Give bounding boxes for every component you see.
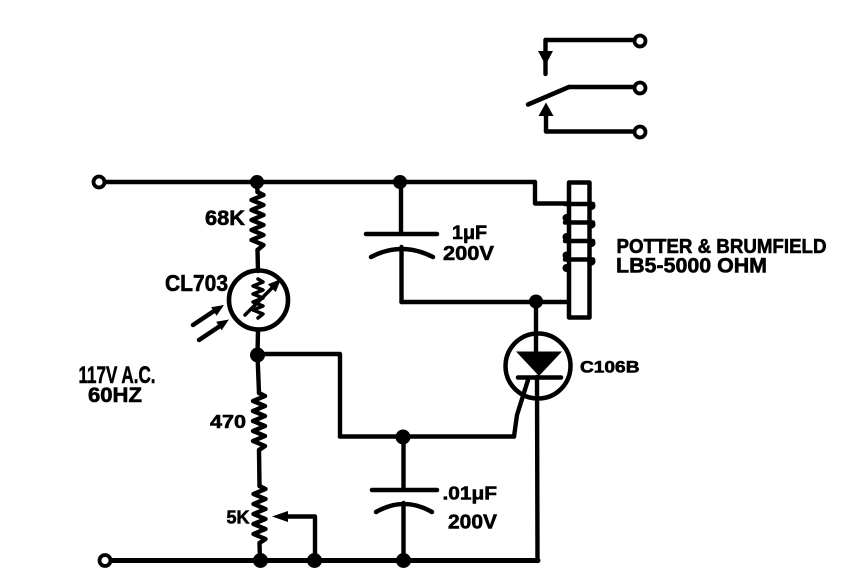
- svg-text:200V: 200V: [443, 242, 494, 265]
- svg-text:68K: 68K: [205, 207, 246, 230]
- svg-text:1μF: 1μF: [452, 222, 487, 244]
- svg-text:5K: 5K: [227, 508, 250, 528]
- svg-text:C106B: C106B: [580, 358, 640, 377]
- svg-text:60HZ: 60HZ: [88, 384, 142, 407]
- svg-text:LB5-5000 OHM: LB5-5000 OHM: [616, 255, 767, 278]
- svg-text:CL703: CL703: [165, 270, 228, 296]
- svg-text:470: 470: [210, 412, 246, 432]
- svg-text:.01μF: .01μF: [443, 484, 498, 505]
- svg-text:200V: 200V: [448, 511, 497, 534]
